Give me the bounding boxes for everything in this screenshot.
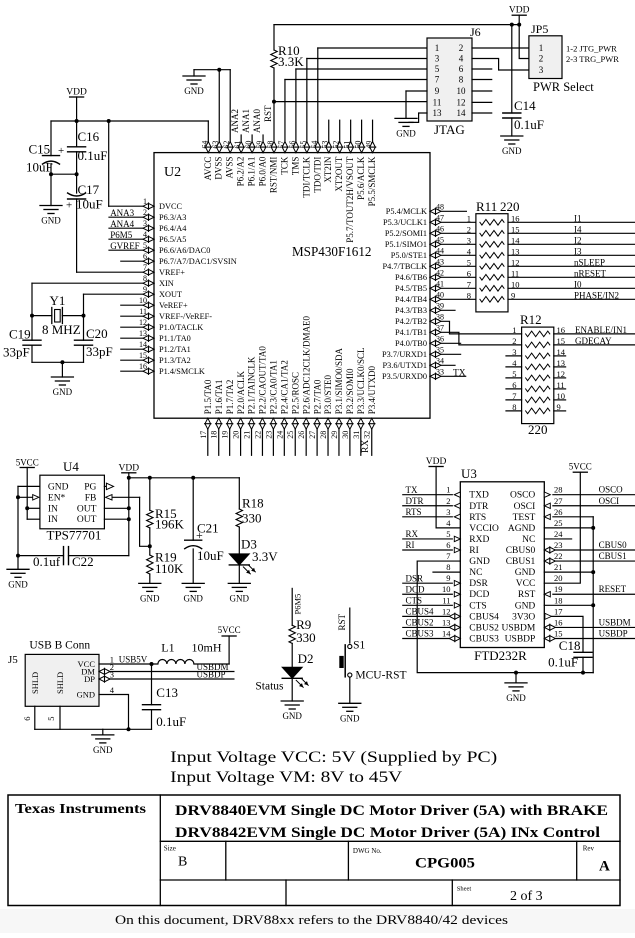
svg-text:6: 6 [467, 269, 471, 279]
svg-text:CBUS4: CBUS4 [406, 607, 435, 617]
svg-text:On this document, DRV88xx refe: On this document, DRV88xx refers to the … [115, 912, 508, 927]
svg-text:PWR Select: PWR Select [533, 80, 594, 94]
svg-text:13: 13 [511, 247, 520, 257]
svg-text:12: 12 [442, 606, 451, 616]
svg-text:18: 18 [554, 595, 563, 605]
svg-text:GND: GND [230, 593, 250, 603]
svg-text:VDD: VDD [426, 457, 447, 467]
svg-text:10uF: 10uF [197, 548, 224, 563]
svg-text:10: 10 [442, 584, 451, 594]
svg-text:16: 16 [511, 214, 520, 224]
svg-text:11: 11 [433, 97, 442, 107]
svg-text:CBUS2: CBUS2 [406, 618, 434, 628]
svg-text:10mH: 10mH [192, 641, 222, 655]
svg-text:29: 29 [330, 431, 339, 439]
svg-text:3: 3 [467, 236, 471, 246]
svg-text:26: 26 [297, 431, 306, 439]
svg-text:USBDM: USBDM [502, 623, 536, 633]
svg-text:P3.2/SOMI0: P3.2/SOMI0 [345, 368, 355, 414]
svg-text:CPG005: CPG005 [415, 856, 475, 872]
svg-text:P6.6/A6/DAC0: P6.6/A6/DAC0 [159, 246, 210, 255]
svg-text:P1.5/TA0: P1.5/TA0 [203, 379, 213, 414]
svg-text:P2.7/TA0: P2.7/TA0 [312, 379, 322, 414]
svg-text:P5.4/MCLK: P5.4/MCLK [386, 207, 427, 216]
svg-text:Input Voltage VCC: 5V (Supplie: Input Voltage VCC: 5V (Supplied by PC) [170, 749, 497, 766]
svg-text:28: 28 [319, 431, 328, 439]
svg-text:VCCIO: VCCIO [469, 524, 499, 534]
svg-text:GND: GND [515, 568, 536, 578]
svg-text:21: 21 [243, 431, 252, 439]
svg-text:330: 330 [242, 511, 262, 526]
svg-text:30: 30 [341, 431, 350, 439]
svg-text:32: 32 [363, 431, 372, 439]
svg-text:10uF: 10uF [76, 197, 103, 212]
svg-text:C15: C15 [29, 142, 51, 157]
svg-text:GVREF: GVREF [110, 241, 140, 251]
svg-text:GND: GND [93, 745, 113, 755]
svg-text:P5.3/UCLK1: P5.3/UCLK1 [383, 218, 427, 227]
svg-text:0.1uF: 0.1uF [78, 148, 108, 163]
svg-text:NC: NC [522, 535, 535, 545]
svg-text:9: 9 [511, 291, 515, 301]
svg-text:21: 21 [554, 562, 563, 572]
svg-text:TDI/TCLK: TDI/TCLK [301, 156, 311, 197]
svg-text:TXD: TXD [469, 491, 489, 501]
svg-text:P2.2/CAOUT/TA0: P2.2/CAOUT/TA0 [258, 346, 268, 415]
svg-text:P6.7/A7/DAC1/SVSIN: P6.7/A7/DAC1/SVSIN [159, 257, 237, 266]
svg-text:4: 4 [110, 685, 115, 695]
svg-text:CBUS4: CBUS4 [469, 612, 499, 622]
svg-text:2 of 3: 2 of 3 [510, 889, 543, 904]
svg-text:19: 19 [221, 431, 230, 439]
svg-text:RX: RX [361, 440, 371, 453]
svg-text:220: 220 [500, 199, 520, 214]
svg-text:RESET: RESET [599, 584, 627, 594]
svg-text:5: 5 [446, 529, 450, 539]
svg-text:110K: 110K [155, 561, 184, 576]
svg-text:5VCC: 5VCC [16, 458, 39, 468]
svg-text:EN*: EN* [48, 493, 66, 503]
svg-text:TDO/TDI: TDO/TDI [312, 157, 322, 193]
svg-text:USBDP: USBDP [197, 670, 226, 680]
svg-text:10: 10 [511, 280, 520, 290]
svg-text:C22: C22 [72, 554, 94, 569]
svg-text:25: 25 [286, 431, 295, 439]
svg-text:P3.3/UCLK0/SCL: P3.3/UCLK0/SCL [356, 347, 366, 414]
svg-text:17: 17 [199, 431, 208, 439]
svg-text:4: 4 [459, 54, 464, 64]
svg-text:FTD232R: FTD232R [474, 648, 527, 663]
svg-text:ANA3: ANA3 [110, 208, 134, 218]
svg-text:8: 8 [446, 562, 450, 572]
svg-text:D2: D2 [298, 651, 314, 666]
svg-text:OUT: OUT [77, 504, 97, 514]
svg-text:SHLD: SHLD [30, 672, 40, 694]
svg-text:GND: GND [506, 693, 526, 703]
svg-text:RST: RST [518, 590, 536, 600]
svg-text:12: 12 [511, 258, 520, 268]
svg-text:TEST: TEST [513, 513, 536, 523]
svg-text:CTS: CTS [406, 596, 423, 606]
svg-text:DTR: DTR [406, 496, 424, 506]
svg-text:13: 13 [442, 617, 451, 627]
svg-text:P6.5/A5: P6.5/A5 [159, 235, 186, 244]
svg-text:GND: GND [282, 711, 302, 721]
svg-text:CBUS1: CBUS1 [506, 557, 536, 567]
svg-text:31: 31 [352, 431, 361, 439]
svg-text:GND: GND [184, 86, 204, 96]
svg-text:I4: I4 [574, 224, 582, 234]
svg-text:R11: R11 [476, 199, 497, 214]
svg-text:P6.1/A1: P6.1/A1 [247, 157, 257, 187]
svg-text:24: 24 [275, 431, 284, 439]
svg-text:GND: GND [140, 593, 160, 603]
svg-text:6: 6 [459, 64, 464, 74]
svg-text:P5.6/ACLK: P5.6/ACLK [356, 156, 366, 200]
svg-text:14: 14 [442, 628, 451, 638]
svg-text:CBUS0: CBUS0 [506, 546, 536, 556]
svg-text:3V3O: 3V3O [512, 612, 535, 622]
svg-text:VDD: VDD [66, 88, 87, 98]
svg-text:Texas Instruments: Texas Instruments [15, 802, 147, 817]
svg-text:CBUS1: CBUS1 [599, 551, 627, 561]
svg-text:CBUS3: CBUS3 [406, 629, 435, 639]
svg-text:220: 220 [528, 422, 548, 437]
svg-text:I1: I1 [574, 213, 582, 223]
svg-text:nRESET: nRESET [574, 268, 607, 278]
svg-text:6: 6 [22, 717, 32, 721]
svg-text:AGND: AGND [508, 524, 536, 534]
svg-text:28: 28 [554, 485, 563, 495]
svg-text:ENABLE/IN1: ENABLE/IN1 [575, 325, 627, 335]
svg-text:USBDP: USBDP [505, 634, 536, 644]
svg-text:DVCC: DVCC [159, 202, 183, 211]
svg-text:17: 17 [554, 606, 563, 616]
svg-text:P1.1/TA0: P1.1/TA0 [159, 334, 191, 343]
svg-text:330: 330 [296, 630, 316, 645]
svg-text:P2.4/CA1/TA2: P2.4/CA1/TA2 [280, 360, 290, 414]
svg-text:XT2OUT: XT2OUT [334, 156, 344, 191]
svg-text:U2: U2 [164, 165, 181, 180]
svg-text:PHASE/IN2: PHASE/IN2 [574, 290, 619, 300]
svg-text:Size: Size [164, 844, 176, 852]
svg-text:8: 8 [467, 291, 471, 301]
svg-text:NC: NC [469, 568, 482, 578]
svg-text:DRV8840EVM Single DC Motor Dri: DRV8840EVM Single DC Motor Driver (5A) w… [175, 803, 608, 819]
svg-text:XT2IN: XT2IN [323, 156, 333, 182]
svg-text:P5.5/SMCLK: P5.5/SMCLK [367, 156, 377, 206]
svg-text:CBUS2: CBUS2 [469, 623, 499, 633]
svg-text:A: A [599, 859, 610, 875]
svg-text:VREF+: VREF+ [159, 268, 185, 277]
svg-text:1-2 JTG_PWR: 1-2 JTG_PWR [566, 44, 617, 54]
svg-text:2: 2 [467, 225, 471, 235]
svg-text:27: 27 [308, 431, 317, 439]
svg-text:J6: J6 [470, 25, 481, 39]
svg-text:MSP430F1612: MSP430F1612 [292, 244, 372, 259]
svg-text:PG: PG [84, 482, 96, 492]
svg-text:VREF-/VeREF-: VREF-/VeREF- [159, 312, 212, 321]
svg-text:JTAG: JTAG [434, 122, 465, 137]
svg-text:C17: C17 [78, 182, 100, 197]
svg-text:ANA2: ANA2 [230, 109, 240, 133]
svg-text:GND: GND [183, 593, 203, 603]
svg-text:P4.2/TB2: P4.2/TB2 [395, 317, 427, 326]
svg-text:USB B Conn: USB B Conn [29, 640, 90, 652]
svg-text:196K: 196K [155, 517, 185, 532]
svg-text:7: 7 [467, 280, 471, 290]
svg-text:CTS: CTS [469, 601, 486, 611]
svg-text:P1.2/TA1: P1.2/TA1 [159, 345, 191, 354]
svg-text:nSLEEP: nSLEEP [574, 257, 605, 267]
svg-text:GND: GND [502, 146, 522, 156]
svg-text:GND: GND [41, 216, 61, 226]
svg-text:GND: GND [53, 387, 73, 397]
svg-text:13: 13 [433, 108, 443, 118]
svg-text:VDD: VDD [119, 463, 140, 473]
svg-text:0.1uF: 0.1uF [156, 714, 186, 729]
svg-text:GND: GND [469, 557, 490, 567]
svg-text:P4.3/TB3: P4.3/TB3 [395, 306, 427, 315]
svg-text:P4.4/TB4: P4.4/TB4 [395, 295, 428, 304]
svg-text:2: 2 [446, 496, 450, 506]
svg-text:GND: GND [8, 579, 28, 589]
svg-text:27: 27 [554, 496, 563, 506]
svg-text:P1.4/SMCLK: P1.4/SMCLK [159, 367, 205, 376]
svg-text:Rev: Rev [583, 845, 595, 853]
svg-text:RX: RX [406, 529, 419, 539]
svg-text:R18: R18 [242, 496, 264, 511]
svg-text:5: 5 [435, 64, 440, 74]
svg-text:TMS: TMS [290, 157, 300, 176]
svg-text:P4.5/TB5: P4.5/TB5 [395, 284, 427, 293]
svg-text:CBUS3: CBUS3 [469, 634, 499, 644]
svg-text:23: 23 [264, 431, 273, 439]
svg-text:14: 14 [457, 108, 467, 118]
svg-text:15: 15 [511, 225, 520, 235]
svg-text:RST: RST [337, 613, 347, 630]
svg-text:DTR: DTR [469, 502, 489, 512]
svg-text:26: 26 [554, 507, 563, 517]
svg-text:3: 3 [446, 507, 450, 517]
svg-text:11: 11 [442, 595, 450, 605]
svg-text:I3: I3 [574, 246, 582, 256]
svg-text:P3.7/URXD1: P3.7/URXD1 [382, 350, 427, 359]
svg-text:GND: GND [396, 128, 416, 138]
svg-text:DRV8842EVM Single DC Motor Dri: DRV8842EVM Single DC Motor Driver (5A) I… [175, 825, 600, 841]
svg-text:OSCO: OSCO [599, 485, 624, 495]
svg-text:7: 7 [435, 75, 440, 85]
svg-text:OSCO: OSCO [510, 491, 535, 501]
svg-text:P5.0/STE1: P5.0/STE1 [391, 251, 427, 260]
svg-text:IN: IN [48, 504, 58, 514]
svg-text:C18: C18 [559, 638, 581, 653]
svg-text:C20: C20 [86, 326, 108, 341]
svg-text:GND: GND [340, 713, 360, 723]
svg-text:P4.7/TBCLK: P4.7/TBCLK [383, 262, 428, 271]
svg-text:0.1uF: 0.1uF [514, 117, 544, 132]
svg-text:Sheet: Sheet [457, 886, 472, 893]
svg-text:5VCC: 5VCC [218, 625, 241, 635]
svg-text:U4: U4 [63, 459, 79, 474]
svg-text:DCD: DCD [469, 590, 489, 600]
svg-text:ANA0: ANA0 [252, 109, 262, 133]
svg-text:B: B [178, 855, 187, 870]
svg-text:5VCC: 5VCC [569, 462, 592, 472]
svg-text:1: 1 [467, 214, 471, 224]
svg-text:9: 9 [446, 573, 450, 583]
svg-text:P6M5: P6M5 [110, 230, 133, 240]
svg-text:P5.7/TOUT2H/VSOUT: P5.7/TOUT2H/VSOUT [345, 156, 355, 243]
svg-text:P3.1/SIMO0/SDA: P3.1/SIMO0/SDA [334, 347, 344, 414]
svg-text:2: 2 [459, 43, 464, 53]
svg-text:P2.3/CA0/TA1: P2.3/CA0/TA1 [269, 360, 279, 414]
svg-text:GND: GND [48, 482, 69, 492]
svg-text:P2.1/TAINCLK: P2.1/TAINCLK [247, 356, 257, 414]
svg-text:0.1uf: 0.1uf [33, 554, 61, 569]
svg-text:1: 1 [446, 485, 450, 495]
svg-text:JP5: JP5 [531, 22, 548, 36]
svg-text:ANA1: ANA1 [241, 109, 251, 133]
svg-text:C21: C21 [197, 521, 219, 536]
svg-text:3.3V: 3.3V [252, 549, 278, 564]
svg-text:S1: S1 [353, 639, 365, 651]
svg-text:CBUS0: CBUS0 [599, 540, 628, 550]
svg-text:5: 5 [46, 717, 56, 721]
svg-text:8: 8 [459, 75, 464, 85]
svg-text:TX: TX [406, 485, 418, 495]
svg-text:P6.0/A0: P6.0/A0 [258, 156, 268, 186]
svg-text:P5.2/SOMI1: P5.2/SOMI1 [385, 229, 427, 238]
svg-text:P4.1/TB1: P4.1/TB1 [395, 328, 427, 337]
svg-text:8 MHZ: 8 MHZ [42, 322, 81, 337]
svg-text:VCC: VCC [516, 579, 536, 589]
svg-text:33pF: 33pF [3, 345, 30, 360]
svg-text:P6.2/A2: P6.2/A2 [236, 157, 246, 187]
svg-text:0.1uF: 0.1uF [548, 655, 578, 670]
svg-text:P3.5/URXD0: P3.5/URXD0 [382, 372, 427, 381]
svg-text:P2.6/ADC12CLK/DMAE0: P2.6/ADC12CLK/DMAE0 [301, 315, 311, 414]
svg-text:P3.4/UTXD0: P3.4/UTXD0 [367, 365, 377, 414]
svg-text:25: 25 [554, 518, 563, 528]
svg-text:RI: RI [469, 546, 479, 556]
svg-text:Y1: Y1 [50, 293, 66, 308]
svg-text:Input Voltage VM: 8V to 45V: Input Voltage VM: 8V to 45V [170, 769, 403, 786]
svg-text:P3.6/UTXD1: P3.6/UTXD1 [383, 361, 427, 370]
svg-text:OSCI: OSCI [599, 496, 620, 506]
svg-text:P1.0/TACLK: P1.0/TACLK [159, 323, 203, 332]
svg-text:VDD: VDD [509, 6, 530, 16]
svg-text:10uF: 10uF [26, 160, 53, 175]
svg-text:I0: I0 [574, 279, 582, 289]
svg-text:C19: C19 [9, 327, 31, 342]
svg-text:P6.3/A3: P6.3/A3 [159, 213, 186, 222]
svg-text:RXD: RXD [469, 535, 489, 545]
svg-text:AVCC: AVCC [203, 157, 213, 181]
svg-text:VeREF+: VeREF+ [159, 301, 188, 310]
svg-text:DSR: DSR [469, 579, 488, 589]
svg-text:OUT: OUT [77, 515, 97, 525]
svg-text:33pF: 33pF [86, 344, 113, 359]
svg-text:AVSS: AVSS [225, 157, 235, 179]
svg-text:7: 7 [446, 551, 450, 561]
svg-text:DP: DP [84, 674, 95, 684]
svg-text:FB: FB [85, 493, 97, 503]
svg-text:19: 19 [554, 584, 563, 594]
svg-text:18: 18 [210, 431, 219, 439]
svg-text:USBDM: USBDM [599, 617, 631, 627]
svg-text:DSR: DSR [406, 573, 424, 583]
svg-text:20: 20 [232, 431, 241, 439]
svg-text:U3: U3 [461, 466, 477, 481]
svg-text:P2.0/ACLK: P2.0/ACLK [236, 370, 246, 414]
svg-text:OSCI: OSCI [514, 502, 536, 512]
svg-text:DCD: DCD [406, 584, 426, 594]
svg-text:RST/NMI: RST/NMI [269, 157, 279, 194]
svg-text:P3.0/STE0: P3.0/STE0 [323, 374, 333, 414]
svg-text:3.3K: 3.3K [278, 54, 304, 69]
svg-text:TCK: TCK [279, 156, 289, 175]
svg-text:Status: Status [255, 681, 284, 693]
svg-text:22: 22 [554, 551, 563, 561]
svg-text:12: 12 [457, 97, 466, 107]
svg-text:RST: RST [263, 105, 273, 122]
svg-text:XOUT: XOUT [159, 290, 182, 299]
svg-text:6: 6 [446, 540, 450, 550]
svg-text:P2.5/ROSC: P2.5/ROSC [290, 372, 300, 414]
svg-text:16: 16 [554, 617, 563, 627]
svg-text:5: 5 [467, 258, 471, 268]
svg-text:C14: C14 [514, 98, 536, 113]
svg-text:RTS: RTS [469, 513, 486, 523]
svg-text:23: 23 [554, 540, 563, 550]
svg-text:1: 1 [539, 43, 544, 53]
svg-text:XIN: XIN [159, 279, 174, 288]
svg-text:C16: C16 [78, 129, 100, 144]
svg-text:24: 24 [554, 529, 563, 539]
svg-text:P6M5: P6M5 [293, 594, 303, 615]
svg-text:C13: C13 [156, 685, 178, 700]
svg-text:TX: TX [453, 369, 466, 379]
svg-text:P1.6/TA1: P1.6/TA1 [214, 380, 224, 415]
svg-text:9: 9 [435, 86, 440, 96]
svg-text:+: + [66, 200, 72, 212]
svg-text:DWG No.: DWG No. [353, 847, 382, 855]
svg-text:GDECAY: GDECAY [575, 336, 612, 346]
svg-text:P6.4/A4: P6.4/A4 [159, 224, 187, 233]
svg-text:RI: RI [406, 540, 415, 550]
svg-text:L1: L1 [161, 641, 174, 655]
svg-text:P1.3/TA2: P1.3/TA2 [159, 356, 191, 365]
svg-text:2-3 TRG_PWR: 2-3 TRG_PWR [566, 54, 619, 64]
svg-text:22: 22 [253, 431, 262, 439]
svg-text:GND: GND [515, 601, 536, 611]
svg-text:SHLD: SHLD [55, 672, 65, 694]
svg-text:USB5V: USB5V [119, 655, 148, 665]
svg-text:TPS77701: TPS77701 [47, 528, 102, 543]
svg-text:10: 10 [457, 86, 467, 96]
svg-text:P4.6/TB6: P4.6/TB6 [395, 273, 427, 282]
svg-text:DVSS: DVSS [214, 157, 224, 180]
svg-text:14: 14 [511, 236, 520, 246]
svg-text:1: 1 [435, 43, 440, 53]
svg-text:J5: J5 [8, 654, 18, 666]
svg-text:P4.0/TB0: P4.0/TB0 [395, 339, 427, 348]
svg-text:GND: GND [77, 689, 95, 699]
svg-text:3: 3 [539, 65, 544, 75]
svg-text:15: 15 [554, 628, 563, 638]
svg-text:ANA4: ANA4 [110, 219, 134, 229]
